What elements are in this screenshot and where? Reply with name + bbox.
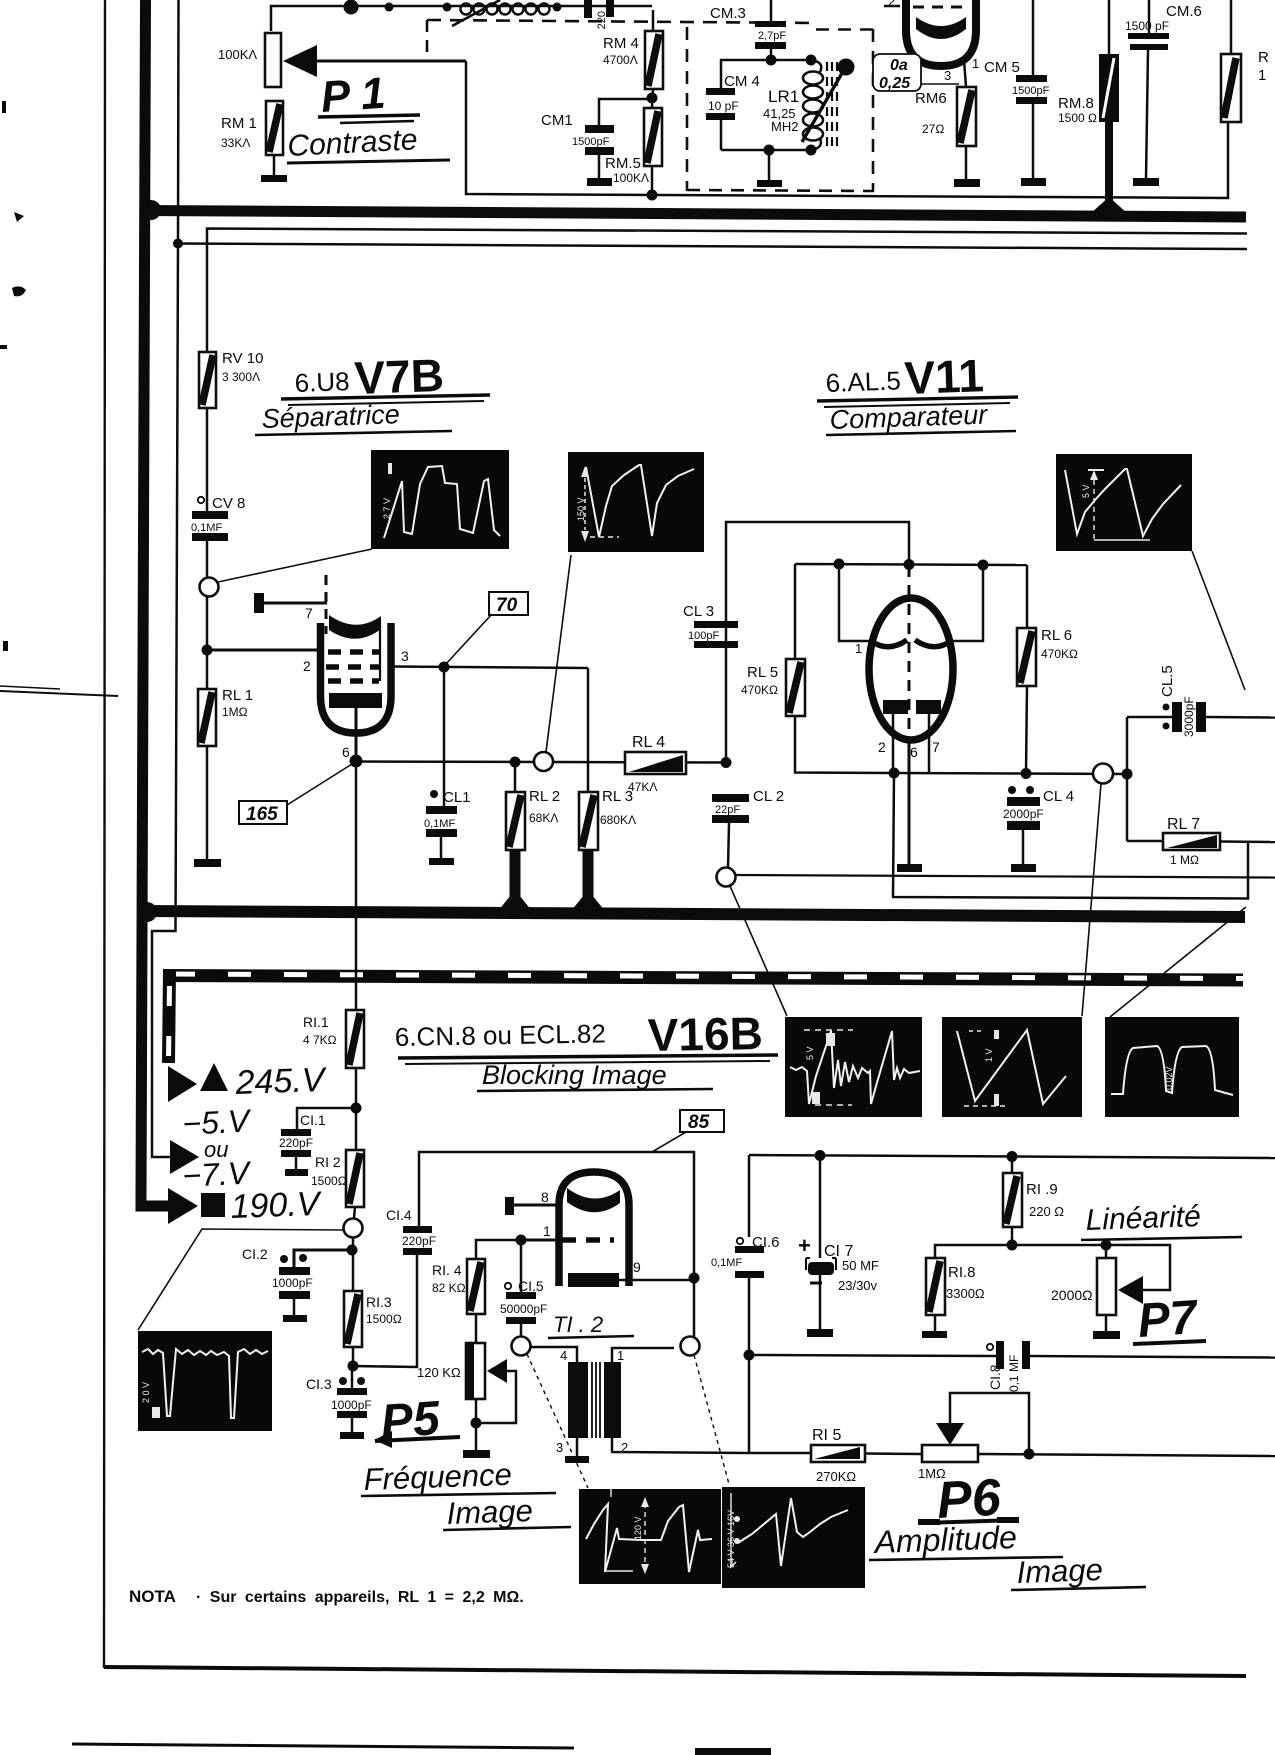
scope photo S2c 120V [579, 1489, 721, 1584]
svg-text:CL 3: CL 3 [683, 603, 714, 620]
capacitor 220 series [584, 0, 614, 29]
node test point V11 [1082, 764, 1113, 1017]
pointer offpage to S3b [1110, 907, 1246, 1017]
node pin6 ball [350, 755, 363, 768]
node test point TI2 left [512, 1337, 589, 1489]
resistor RI3 [344, 1291, 402, 1366]
bus HT junction bulge lower [137, 902, 157, 922]
svg-text:RI.3: RI.3 [366, 1294, 392, 1310]
svg-text:Comparateur: Comparateur [829, 399, 989, 435]
svg-text:6.CN.8 ou ECL.82: 6.CN.8 ou ECL.82 [395, 1018, 607, 1052]
ground CM1 [587, 155, 612, 186]
dashed box LR1 [687, 27, 874, 191]
scope photo S3 5V [1056, 454, 1192, 551]
resistor RI1 [303, 1010, 364, 1108]
ground CI7 [807, 1329, 833, 1337]
tube V11 cathodes [878, 700, 941, 773]
ground CM6 [1133, 50, 1159, 186]
ground TI2 pin3 [565, 1438, 589, 1463]
ground V11 shield [897, 740, 922, 872]
svg-text:CL 4: CL 4 [1043, 788, 1074, 805]
capacitor CM1 [541, 99, 648, 155]
svg-text:1000pF: 1000pF [331, 1398, 372, 1412]
bus2 thick horizontal (masse) [143, 911, 1245, 917]
svg-text:0,25: 0,25 [879, 75, 911, 92]
svg-text:0,1MF: 0,1MF [424, 818, 455, 830]
scope photo S1c 20V [138, 1331, 272, 1431]
tube V7B pin labels [303, 648, 409, 760]
svg-text:CM 4: CM 4 [724, 73, 760, 90]
svg-text:P 1: P 1 [319, 69, 387, 122]
svg-text:3300Ω: 3300Ω [946, 1286, 985, 1301]
svg-text:V11: V11 [904, 349, 985, 404]
potentiometer P7 2000 [1051, 1245, 1143, 1332]
title Separatrice [255, 399, 452, 435]
resistor RV10 [199, 350, 263, 505]
svg-text:CM.3: CM.3 [710, 5, 746, 22]
junction top c [553, 3, 562, 12]
bus HT thick vertical [141, 0, 146, 1198]
inductor tuner coil [452, 0, 550, 26]
node test point RI2 [138, 1219, 363, 1331]
capacitor CI6 [711, 1234, 780, 1355]
node test point TI2 right [681, 1337, 730, 1485]
svg-text:54 V 36 V 16V: 54 V 36 V 16V [726, 1510, 736, 1568]
capacitor CI5 [500, 1240, 547, 1337]
svg-text:Contraste: Contraste [287, 123, 419, 163]
svg-text:100KΛ: 100KΛ [613, 171, 649, 185]
resistor RM8 [1058, 0, 1119, 206]
svg-text:190.V: 190.V [230, 1185, 323, 1226]
svg-text:27Ω: 27Ω [922, 122, 944, 136]
wire CI8 rail [749, 1355, 996, 1356]
svg-text:6.AL.5: 6.AL.5 [825, 365, 901, 398]
svg-text:5: 5 [948, 640, 955, 655]
svg-text:120 KΩ: 120 KΩ [417, 1365, 461, 1380]
svg-text:CM.6: CM.6 [1166, 3, 1202, 20]
tube V11 shield dashed [908, 566, 911, 740]
wire -5V vertical feed [152, 0, 199, 1174]
svg-text:Image: Image [446, 1493, 533, 1531]
svg-text:10 pF: 10 pF [708, 99, 739, 113]
capacitor CV8 [191, 495, 245, 577]
resistor RL6 [1017, 627, 1078, 773]
tube V7B envelope [321, 623, 392, 733]
svg-text:70: 70 [496, 595, 518, 616]
svg-text:5 V: 5 V [805, 1046, 815, 1060]
svg-text:RI 5: RI 5 [812, 1427, 841, 1444]
junction RL1 grid [202, 645, 319, 656]
resistor RL4 [625, 734, 686, 794]
stray scan marks left margin [0, 101, 118, 696]
svg-text:MH2: MH2 [771, 119, 798, 134]
capacitor CI8 [987, 1341, 1275, 1392]
pointer S3 to CL5 [1192, 551, 1245, 690]
capacitor CI1 [279, 1108, 356, 1157]
svg-text:1: 1 [855, 641, 862, 656]
svg-text:NOTA: NOTA [129, 1587, 176, 1606]
ground RM1 [261, 155, 287, 182]
slug arrow LR1 [802, 59, 855, 143]
svg-text:3 300Λ: 3 300Λ [222, 370, 260, 384]
ground P5 [463, 1450, 490, 1458]
svg-text:6: 6 [910, 744, 918, 760]
wire tank top [721, 55, 817, 89]
svg-text:7: 7 [305, 605, 313, 621]
scope photo S1b 5V [785, 1017, 922, 1117]
svg-text:1500Ω: 1500Ω [366, 1312, 402, 1326]
text P5 [374, 1392, 460, 1449]
ground CI1 [285, 1157, 308, 1176]
node test point CL2 [717, 868, 1275, 1017]
ground tank [757, 150, 782, 187]
svg-text:100pF: 100pF [688, 630, 719, 642]
text NOTA [129, 1587, 524, 1606]
svg-text:220 Ω: 220 Ω [1029, 1204, 1064, 1219]
capacitor CM4 [706, 73, 760, 150]
wire top grid rail [271, 6, 652, 31]
capacitor CI3 [306, 1366, 372, 1418]
tube V7B grids dashed [326, 652, 379, 681]
junction CI1 [351, 1103, 362, 1114]
wire cathode rail [356, 757, 732, 769]
svg-text:50 MF: 50 MF [842, 1258, 879, 1273]
capacitor CL1 [424, 789, 471, 837]
svg-text:1000pF: 1000pF [272, 1276, 313, 1290]
node test point CV8 [200, 549, 373, 650]
title V11 [817, 349, 1018, 407]
text P1 [318, 69, 420, 123]
svg-text:CI.1: CI.1 [300, 1112, 326, 1128]
bus top thick horizontal [141, 211, 1246, 218]
svg-text:245.V: 245.V [234, 1061, 328, 1102]
svg-text:RI. 4: RI. 4 [432, 1262, 462, 1278]
capacitor CM6 [1125, 0, 1202, 50]
tube V7B grid cap pin7 [254, 575, 327, 634]
svg-text:CI.3: CI.3 [306, 1376, 332, 1392]
capacitor CI2 [242, 1246, 352, 1299]
svg-text:0a: 0a [890, 57, 908, 74]
svg-text:165: 165 [246, 804, 278, 825]
svg-text:2: 2 [303, 658, 311, 674]
tube V16B grid dashed [521, 1223, 614, 1240]
svg-text:1500Ω: 1500Ω [311, 1174, 347, 1188]
svg-text:RL 2: RL 2 [529, 788, 560, 805]
label 0a 0,25 [873, 54, 959, 92]
svg-text:3: 3 [401, 648, 409, 664]
svg-text:2000Ω: 2000Ω [1051, 1287, 1093, 1303]
svg-text:Blocking Image: Blocking Image [482, 1060, 667, 1090]
inductor LR1 [763, 60, 823, 150]
svg-text:RI 2: RI 2 [315, 1154, 341, 1170]
svg-text:120 V: 120 V [633, 1516, 643, 1540]
svg-text:0,1 MF: 0,1 MF [1007, 1355, 1021, 1392]
svg-text:CI.2: CI.2 [242, 1246, 268, 1262]
svg-text:Linéarité: Linéarité [1085, 1200, 1201, 1237]
wire 70 rail [207, 229, 1247, 353]
wire V7B pin6 to RI1 [355, 761, 358, 1010]
capacitor CM5 [984, 0, 1050, 104]
label 165 box [239, 764, 352, 825]
wire pin3 rail [391, 662, 588, 807]
tube V16B grid cap pin8 [505, 1189, 558, 1215]
svg-text:RL 5: RL 5 [747, 664, 778, 681]
resistor RM5 [605, 108, 662, 195]
svg-text:RM 1: RM 1 [221, 115, 257, 132]
svg-text:270KΩ: 270KΩ [816, 1469, 856, 1484]
svg-text:RL 7: RL 7 [1167, 816, 1200, 833]
tube V11 plates [855, 640, 955, 656]
svg-text:CI.4: CI.4 [386, 1207, 412, 1223]
tube V16B cathode [568, 1259, 694, 1287]
wire right column drop [748, 1155, 751, 1237]
svg-text:1500pF: 1500pF [572, 136, 610, 148]
capacitor CL4 [1003, 786, 1074, 830]
resistor RM9 (cut) [1221, 0, 1269, 122]
text Frequence Image [361, 1457, 571, 1531]
svg-text:680KΛ: 680KΛ [600, 813, 636, 827]
svg-text:RL 4: RL 4 [632, 734, 665, 751]
resistor RI5 [811, 1427, 922, 1484]
ground CI3 [340, 1418, 364, 1439]
resistor RI8 [926, 1258, 985, 1332]
label 70 box [445, 592, 528, 665]
svg-text:33KΛ: 33KΛ [221, 136, 250, 150]
svg-text:4 7KΩ: 4 7KΩ [303, 1033, 337, 1047]
page border left [104, 0, 105, 1668]
svg-text:1MΩ: 1MΩ [222, 705, 248, 719]
svg-text:RM 4: RM 4 [603, 35, 639, 52]
svg-text:23/30v: 23/30v [838, 1278, 878, 1293]
svg-text:TI . 2: TI . 2 [553, 1312, 603, 1337]
resistor RL2 [498, 762, 560, 911]
resistor RM1 [221, 101, 283, 155]
label -5V ou -7V [181, 1102, 252, 1194]
svg-text:47KΛ: 47KΛ [628, 780, 657, 794]
bus HT junction bulge top [141, 200, 161, 220]
tube V top (cut) [884, 0, 979, 83]
svg-text:1500pF: 1500pF [1012, 85, 1050, 97]
junction RM4 RM5 [647, 89, 658, 108]
svg-text:2: 2 [888, 0, 895, 9]
junction CI8 rail [744, 1350, 755, 1361]
label 190V [201, 1185, 323, 1226]
svg-text:CI.5: CI.5 [518, 1278, 544, 1294]
tube V7B anode [329, 615, 381, 681]
svg-text:RI.1: RI.1 [303, 1014, 329, 1030]
ground RL1 [194, 746, 221, 867]
wire loop cathode return [893, 773, 1248, 899]
svg-text:1: 1 [1258, 67, 1266, 84]
svg-text:RL 6: RL 6 [1041, 627, 1072, 644]
svg-text:6.U8: 6.U8 [294, 366, 350, 398]
resistor RL3 [571, 788, 636, 911]
svg-text:RI .9: RI .9 [1026, 1181, 1058, 1198]
capacitor CM3 [710, 0, 786, 60]
resistor RL7 [1127, 774, 1275, 867]
capacitor CL2 [712, 788, 784, 868]
svg-text:· Sur certains appareils, R: · Sur certains appareils, RL 1 = 2,2 MΩ. [196, 1589, 524, 1606]
svg-text:1 V: 1 V [984, 1048, 994, 1062]
text Contraste [287, 123, 450, 163]
title V7B [281, 349, 490, 405]
svg-text:100KΛ: 100KΛ [218, 47, 257, 62]
svg-text:3: 3 [556, 1440, 563, 1455]
scope photo S1 27V [371, 450, 509, 549]
dashed bus 245V horizontal [163, 974, 1243, 980]
scope photo S2b 1V [942, 1017, 1082, 1117]
svg-text:7: 7 [932, 739, 940, 755]
svg-text:4: 4 [560, 1348, 567, 1363]
svg-text:68KΛ: 68KΛ [529, 811, 558, 825]
junction top b [443, 3, 452, 12]
junction top a [385, 3, 394, 12]
svg-text:150 V: 150 V [576, 497, 586, 521]
svg-text:RM6: RM6 [915, 90, 947, 107]
svg-text:1500 pF: 1500 pF [1125, 19, 1169, 33]
resistor RL5 [741, 659, 894, 773]
svg-text:CM 5: CM 5 [984, 59, 1020, 76]
svg-text:Séparatrice: Séparatrice [261, 399, 400, 434]
resistor RM6 [915, 60, 976, 146]
svg-text:50000pF: 50000pF [500, 1302, 547, 1316]
resistor RI2 [311, 1108, 364, 1218]
ground RM6 [954, 146, 980, 187]
svg-text:RL 1: RL 1 [222, 687, 253, 704]
junction CI2 [347, 1237, 358, 1291]
arrow P1 wiper [283, 45, 466, 77]
svg-text:CL1: CL1 [443, 789, 471, 806]
svg-text:RV 10: RV 10 [222, 350, 263, 367]
potentiometer P6 1M [918, 1393, 1275, 1481]
junction RI3 bottom [348, 1252, 418, 1372]
svg-text:6: 6 [342, 744, 350, 760]
svg-text:LR1: LR1 [768, 87, 799, 106]
transformer TI2 [530, 1312, 749, 1455]
dashed bus 245V vertical [168, 970, 197, 1102]
svg-text:CM1: CM1 [541, 112, 573, 129]
capacitor CI7 electrolytic [798, 1155, 879, 1330]
tube V7B cathode [329, 693, 382, 758]
junction RM5 bottom [647, 190, 658, 201]
svg-text:CI.8: CI.8 [987, 1364, 1003, 1390]
svg-text:0,02V: 0,02V [1164, 1066, 1174, 1090]
svg-text:1 MΩ: 1 MΩ [1170, 853, 1199, 867]
svg-text:85: 85 [688, 1112, 710, 1133]
wire B+ rail V16B [749, 1150, 1275, 1162]
bulge at RM8 drop [1091, 197, 1127, 213]
svg-text:4700Λ: 4700Λ [603, 53, 638, 67]
svg-text:V16B: V16B [647, 1007, 763, 1061]
resistor RI4 [432, 1235, 527, 1344]
svg-text:2,7pF: 2,7pF [758, 30, 786, 42]
svg-text:Amplitude: Amplitude [872, 1519, 1017, 1560]
scope photo S3c 54V [722, 1487, 865, 1588]
resistor RM4 [603, 10, 663, 89]
svg-text:1: 1 [972, 56, 979, 71]
wire V16B grid box [419, 1152, 700, 1338]
svg-text:3: 3 [944, 68, 951, 83]
ground CL1 [429, 837, 454, 865]
svg-text:22pF: 22pF [715, 804, 740, 816]
tube V16B anode [567, 1188, 620, 1212]
svg-text:470KΩ: 470KΩ [741, 683, 778, 697]
wire V11 cathode rail [889, 768, 1133, 780]
resistor RL1 [198, 650, 253, 746]
svg-text:1500 Ω: 1500 Ω [1058, 111, 1097, 125]
svg-text:2 0 V: 2 0 V [141, 1382, 151, 1403]
svg-text:Image: Image [1016, 1552, 1103, 1590]
capacitor CL5 [1127, 665, 1275, 774]
svg-text:CL.5: CL.5 [1159, 665, 1176, 697]
text P6 [918, 1469, 1019, 1530]
wire V11 anode rail [795, 559, 1027, 660]
svg-text:470KΩ: 470KΩ [1041, 647, 1078, 661]
svg-text:0,1MF: 0,1MF [191, 522, 222, 534]
svg-text:P7: P7 [1136, 1291, 1201, 1348]
core LR1 dashed [827, 62, 837, 148]
wire linearity rail [935, 1240, 1170, 1291]
node test point cathode [534, 555, 571, 771]
svg-text:9: 9 [633, 1259, 641, 1275]
potentiometer P5 120K [417, 1343, 516, 1451]
title V16B [395, 1007, 778, 1064]
svg-text:3000pF: 3000pF [1182, 696, 1196, 737]
svg-text:+: + [798, 1233, 811, 1258]
svg-text:CV 8: CV 8 [212, 495, 245, 512]
svg-text:CL 2: CL 2 [753, 788, 784, 805]
svg-text:220pF: 220pF [402, 1234, 436, 1248]
scope photo S2 150V [568, 452, 704, 552]
label 245V [200, 1061, 328, 1102]
capacitor CI4 [386, 1207, 436, 1255]
svg-text:0,1MF: 0,1MF [711, 1257, 742, 1269]
text P7 [1133, 1291, 1206, 1348]
next page fragment bar [695, 1748, 771, 1755]
text Linearite [1081, 1200, 1242, 1240]
page edge line bottom [72, 1744, 574, 1748]
svg-text:2: 2 [878, 739, 886, 755]
bus 190V elbow and arrow [141, 1188, 198, 1224]
svg-text:RM.8: RM.8 [1058, 95, 1094, 112]
label 85 box [652, 1110, 724, 1152]
potentiometer P1 100K [218, 33, 281, 87]
title Comparateur [826, 399, 1016, 435]
svg-text:220pF: 220pF [279, 1136, 313, 1150]
svg-text:1: 1 [543, 1223, 551, 1239]
node ball top [344, 0, 359, 15]
title Blocking Image [477, 1060, 713, 1091]
ground CL4 [1011, 830, 1036, 872]
tube V16B envelope [559, 1172, 629, 1286]
svg-text:RM.5: RM.5 [605, 155, 641, 172]
dashed enclosure top [427, 20, 816, 52]
text Amplitude Image [869, 1519, 1146, 1590]
ground RI8 [922, 1331, 947, 1338]
page border bottom [104, 1667, 1246, 1676]
svg-text:8: 8 [541, 1189, 549, 1205]
svg-text:R: R [1258, 49, 1269, 66]
svg-text:5 V: 5 V [1081, 484, 1091, 498]
ground P7 [1093, 1331, 1120, 1339]
scope photo S3b 002V [1105, 1017, 1239, 1117]
capacitor CL3 [683, 522, 909, 762]
ground CI2 [283, 1299, 307, 1322]
svg-text:1: 1 [617, 1348, 624, 1363]
resistor RI9 [1003, 1156, 1064, 1245]
ground CM5 [1021, 104, 1046, 186]
svg-text:2000pF: 2000pF [1003, 807, 1044, 821]
